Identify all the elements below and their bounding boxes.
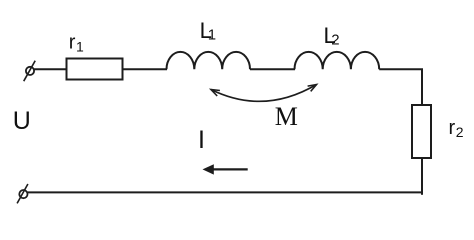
svg-text:U: U <box>13 107 31 135</box>
current arrow I <box>203 164 248 174</box>
terminal bottom-left <box>17 184 28 203</box>
svg-text:I: I <box>198 126 205 154</box>
svg-text:M: M <box>275 102 298 131</box>
svg-text:1: 1 <box>76 39 84 55</box>
wire r1 to L1 <box>123 68 168 70</box>
svg-text:2: 2 <box>331 32 339 49</box>
wire r2 to bottom-right corner <box>421 158 423 195</box>
mutual coupling arrow M <box>211 85 317 102</box>
resistor r2 <box>412 105 431 158</box>
svg-text:1: 1 <box>208 26 216 43</box>
svg-text:r: r <box>449 117 456 139</box>
resistor r1 <box>67 59 123 80</box>
inductor L2 <box>295 52 380 69</box>
bottom wire <box>28 191 422 193</box>
svg-text:r: r <box>69 32 76 54</box>
svg-text:2: 2 <box>456 124 464 140</box>
wire L2 to top-right corner <box>379 69 422 105</box>
terminal top-left <box>24 61 36 81</box>
wire top-left to r1 <box>34 68 67 70</box>
wire L1 to L2 <box>250 68 295 70</box>
inductor L1 <box>167 52 251 69</box>
